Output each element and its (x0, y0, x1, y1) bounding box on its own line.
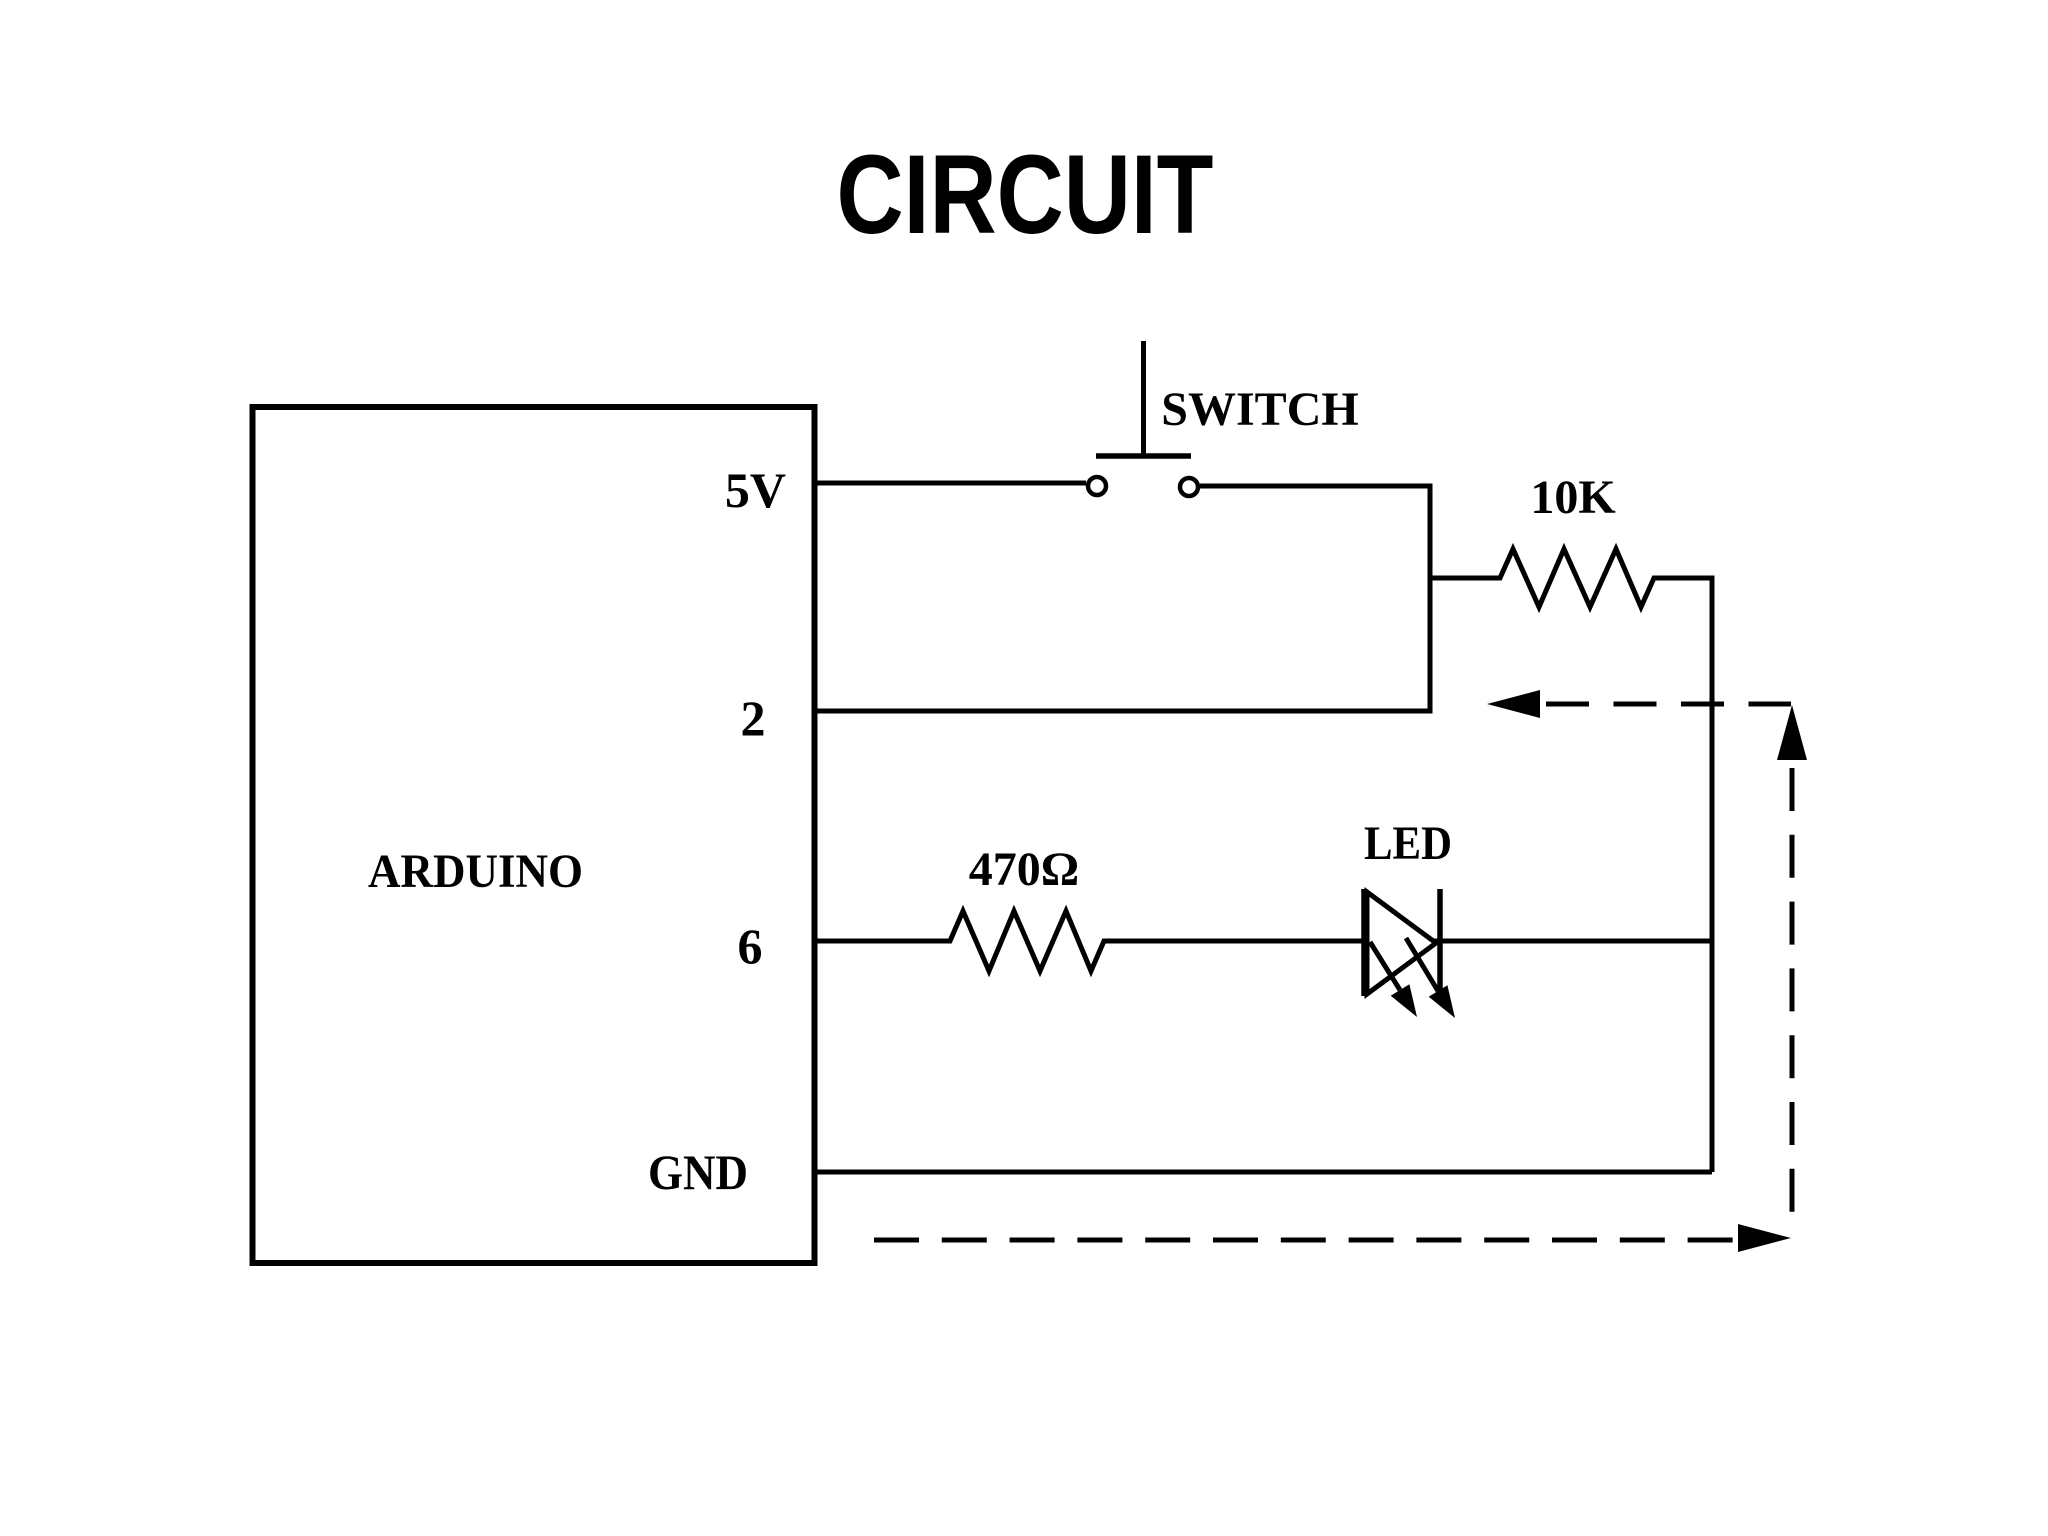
title CIRCUIT (837, 132, 1214, 257)
LED anode bar (1361, 889, 1367, 996)
dashed feedback arrow up (1777, 705, 1807, 760)
wire pin 6 with resistor R2 470ohm to right rail (814, 911, 1712, 971)
switch left contact (1088, 477, 1106, 495)
svg-text:ARDUINO: ARDUINO (368, 845, 583, 898)
wire 5V pin to switch left contact (814, 481, 1086, 486)
svg-text:LED: LED (1364, 817, 1452, 870)
LED triangle (1367, 892, 1436, 994)
svg-text:SWITCH: SWITCH (1161, 383, 1358, 436)
arduino box U1 (253, 407, 815, 1263)
wire switch right contact to pin 2 (814, 486, 1430, 711)
switch right contact (1180, 478, 1198, 496)
LED emission arrow 1 (1370, 942, 1400, 990)
svg-text:5V: 5V (725, 462, 786, 518)
dashed feedback arrow left (to pin 2) (1487, 690, 1540, 718)
resistor R1 10K with wire to right vertical rail (1432, 549, 1712, 1172)
LED cathode bar (1437, 889, 1443, 996)
svg-text:GND: GND (648, 1144, 748, 1200)
wire GND pin to right rail (814, 1170, 1712, 1175)
svg-text:6: 6 (738, 918, 763, 974)
svg-text:10K: 10K (1530, 471, 1615, 524)
switch actuator crossbar (1096, 453, 1191, 459)
svg-text:2: 2 (741, 690, 766, 746)
svg-text:CIRCUIT: CIRCUIT (837, 132, 1214, 257)
switch actuator stem (1141, 341, 1146, 458)
LED emission arrow 2 (1406, 938, 1438, 991)
dashed feedback arrow right (bottom) (1738, 1224, 1791, 1252)
svg-text:470Ω: 470Ω (969, 843, 1079, 896)
